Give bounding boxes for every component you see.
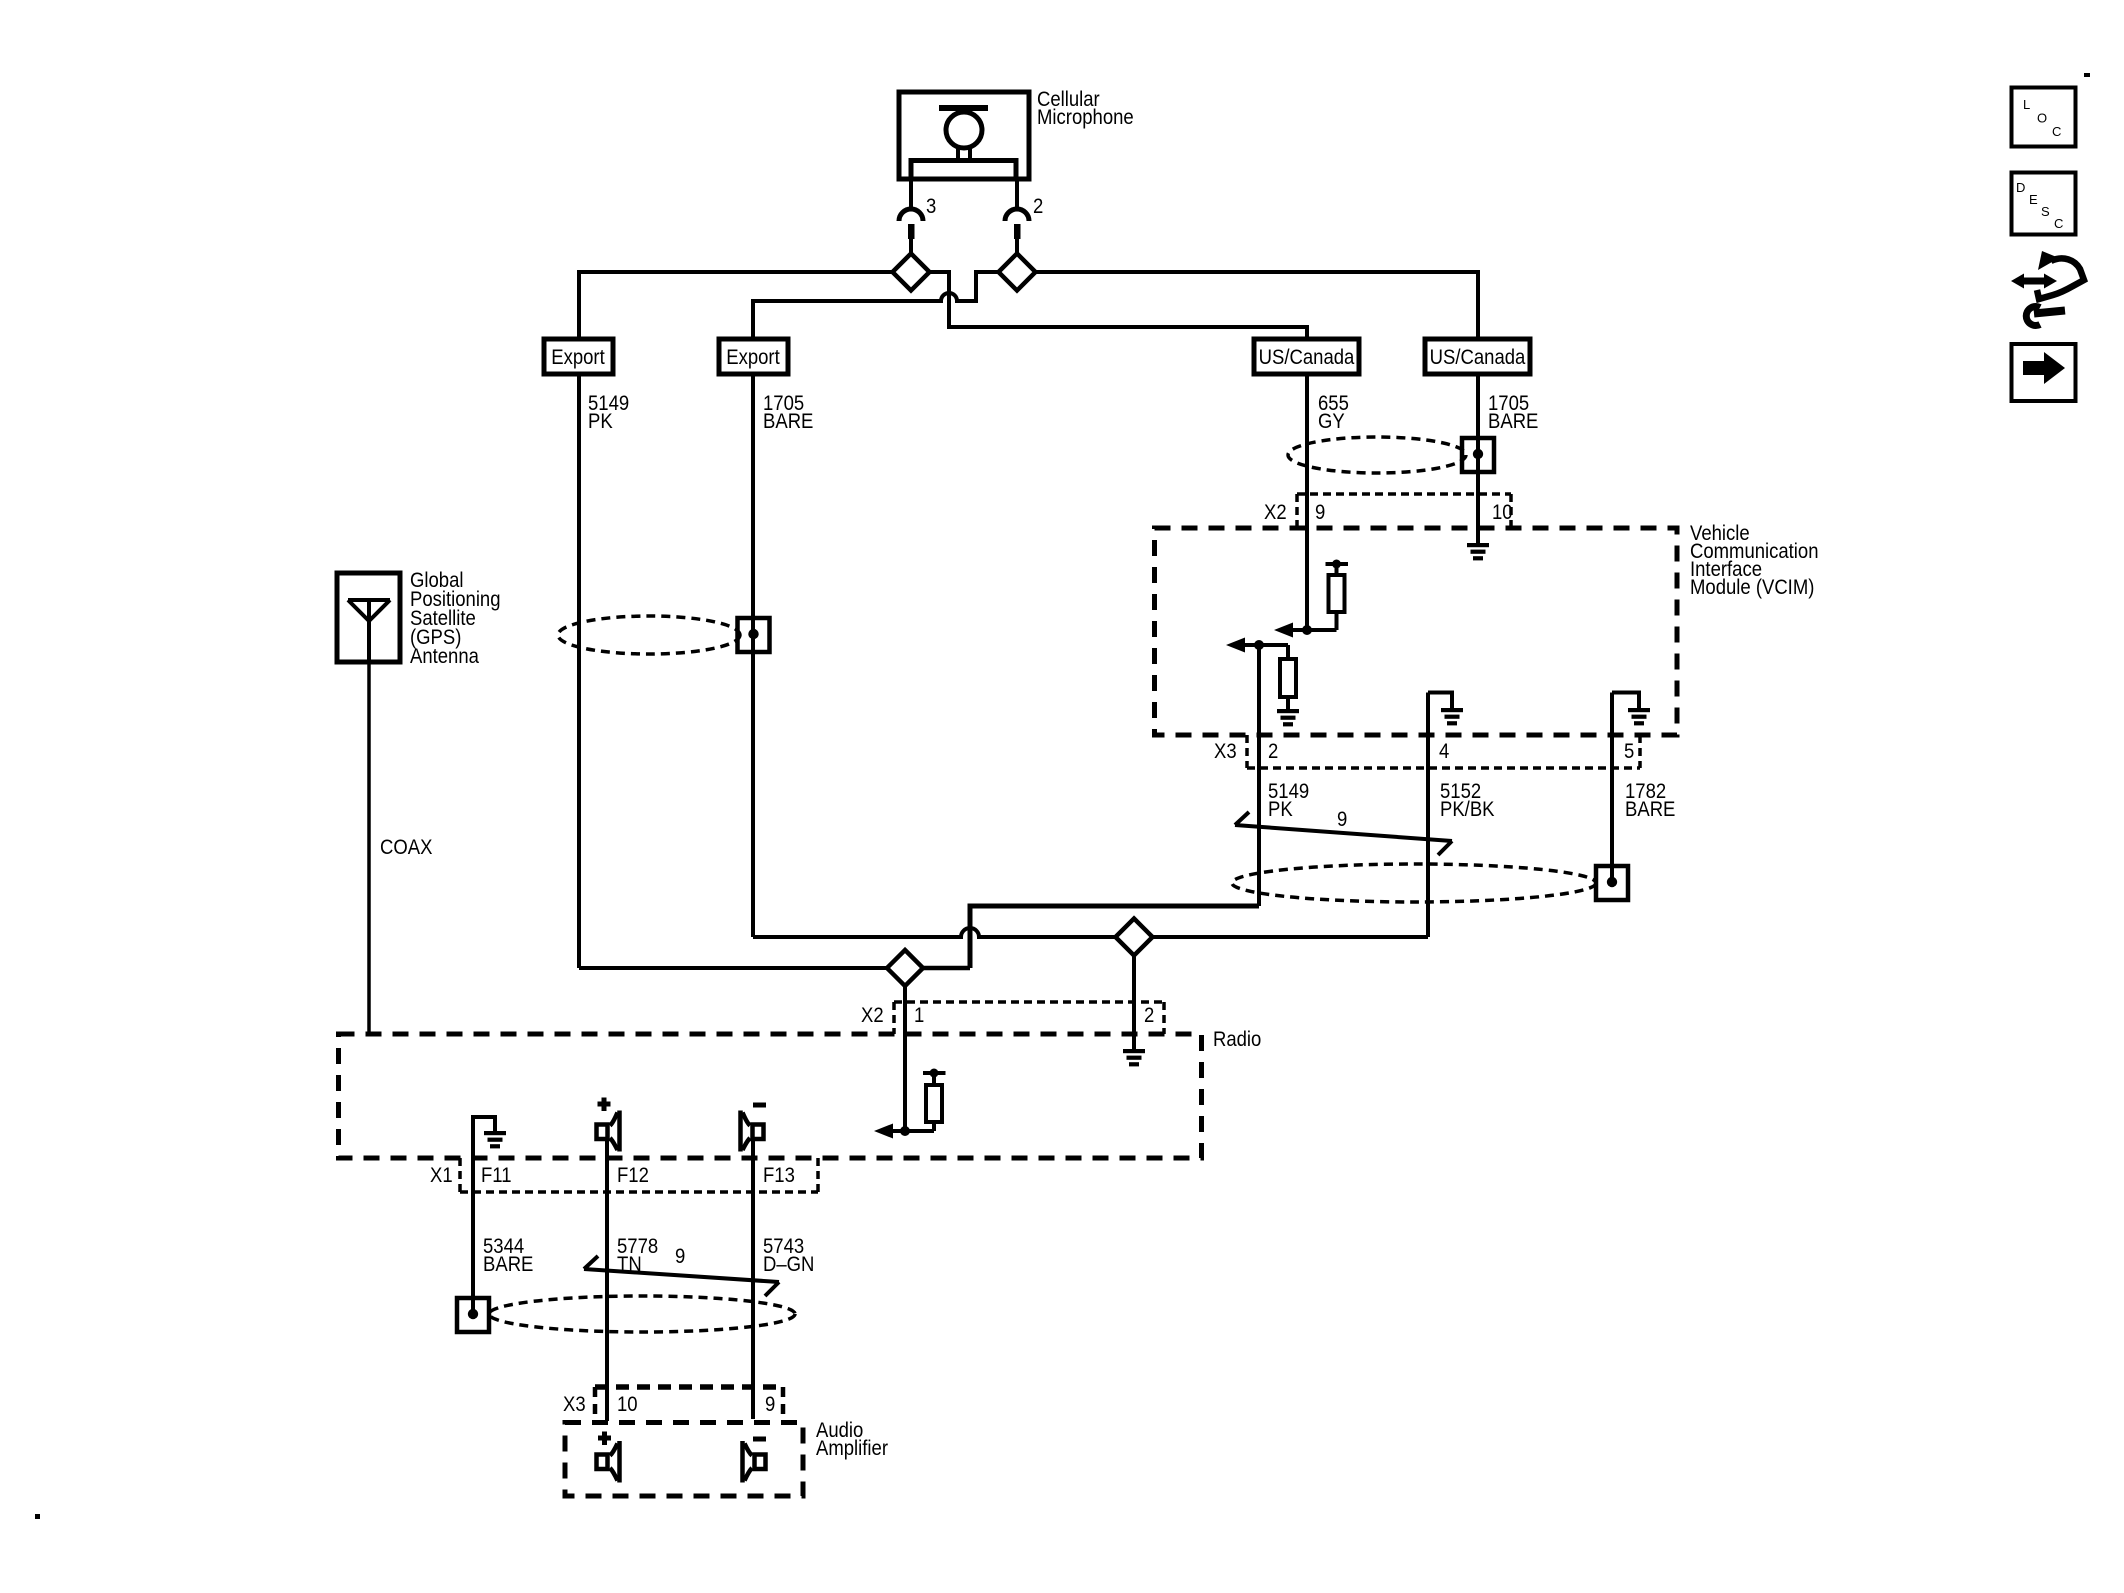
svg-text:9: 9 — [1315, 501, 1325, 524]
svg-text:L: L — [2023, 97, 2030, 112]
svg-text:PK/BK: PK/BK — [1440, 798, 1495, 821]
svg-text:Export: Export — [551, 346, 605, 369]
svg-text:10: 10 — [1492, 501, 1513, 524]
svg-text:X3: X3 — [563, 1393, 586, 1416]
svg-text:Antenna: Antenna — [410, 645, 479, 668]
svg-text:2: 2 — [1033, 195, 1043, 218]
svg-text:5: 5 — [1624, 740, 1634, 763]
svg-text:Radio: Radio — [1213, 1028, 1261, 1051]
svg-text:Amplifier: Amplifier — [816, 1437, 888, 1460]
svg-text:US/Canada: US/Canada — [1259, 346, 1355, 369]
svg-text:1: 1 — [914, 1004, 924, 1027]
svg-text:D: D — [2016, 180, 2025, 195]
svg-text:F13: F13 — [763, 1164, 795, 1187]
svg-text:S: S — [2041, 204, 2050, 219]
svg-text:F12: F12 — [617, 1164, 649, 1187]
svg-text:9: 9 — [765, 1393, 775, 1416]
svg-text:D–GN: D–GN — [763, 1253, 814, 1276]
svg-text:PK: PK — [588, 410, 613, 433]
svg-text:9: 9 — [675, 1245, 685, 1268]
svg-text:X2: X2 — [1264, 501, 1287, 524]
svg-text:9: 9 — [1337, 808, 1347, 831]
svg-text:Module (VCIM): Module (VCIM) — [1690, 576, 1814, 599]
svg-text:X3: X3 — [1214, 740, 1237, 763]
svg-text:C: C — [2054, 216, 2063, 231]
svg-text:3: 3 — [926, 195, 936, 218]
svg-text:Export: Export — [726, 346, 780, 369]
svg-text:O: O — [2037, 111, 2047, 126]
svg-text:BARE: BARE — [1625, 798, 1675, 821]
svg-text:COAX: COAX — [380, 836, 432, 859]
svg-text:2: 2 — [1144, 1004, 1154, 1027]
svg-text:4: 4 — [1439, 740, 1450, 763]
svg-text:X1: X1 — [430, 1164, 453, 1187]
svg-text:2: 2 — [1268, 740, 1278, 763]
svg-text:US/Canada: US/Canada — [1430, 346, 1526, 369]
svg-text:BARE: BARE — [483, 1253, 533, 1276]
svg-text:BARE: BARE — [763, 410, 813, 433]
svg-text:X2: X2 — [861, 1004, 884, 1027]
svg-text:Microphone: Microphone — [1037, 106, 1134, 129]
svg-text:BARE: BARE — [1488, 410, 1538, 433]
svg-text:GY: GY — [1318, 410, 1345, 433]
svg-text:PK: PK — [1268, 798, 1293, 821]
svg-text:10: 10 — [617, 1393, 638, 1416]
svg-text:F11: F11 — [481, 1164, 512, 1187]
svg-text:C: C — [2052, 124, 2061, 139]
svg-text:E: E — [2029, 192, 2038, 207]
